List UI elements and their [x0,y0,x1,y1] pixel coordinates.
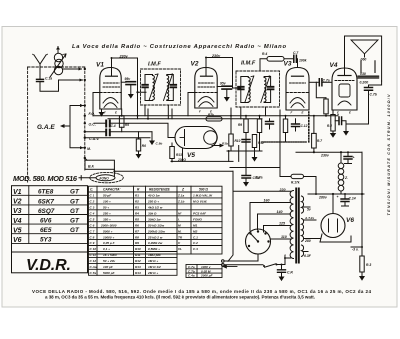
node M. [87,147,91,151]
filter choke Z [338,163,344,191]
svg-text:30k Ω: 30k Ω [148,212,157,216]
svg-text:GT: GT [70,208,80,215]
svg-text:Z.: Z. [344,176,348,180]
tube V1 [100,68,121,110]
svg-text:C 1: C 1 [90,194,95,198]
svg-text:GT: GT [70,218,80,225]
svg-text:C 6: C 6 [90,223,95,227]
wire V5 grid left [120,123,176,137]
svg-text:M': M' [178,212,182,216]
svg-text:V5: V5 [187,152,195,159]
svg-text:R6: R6 [135,223,139,227]
svg-text:V.D.R.: V.D.R. [26,257,71,274]
svg-text:+: + [353,156,355,160]
resistor R10 [229,108,233,151]
rectifier tube V6 [321,194,345,238]
svg-text:2000 pF: 2000 pF [200,274,213,278]
svg-text:C.: C. [90,188,93,192]
svg-text:V2: V2 [13,199,22,206]
resistor R4 [260,57,294,72]
svg-text:RESISTENZE: RESISTENZE [149,188,171,192]
title: La Voce della Radio - Costruzione Apparecchi Radio - Milano [72,44,286,50]
svg-text:R4: R4 [135,212,139,216]
svg-text:C 11: C 11 [90,253,97,257]
svg-text:E: E [302,111,304,115]
svg-text:I.M.F: I.M.F [148,62,161,68]
component value table [89,186,223,275]
svg-text:C 8: C 8 [90,235,95,239]
-3v node [351,246,362,248]
tube V3 [286,68,309,111]
capacitor C.14a [344,157,352,160]
capacitor C.7 [294,55,297,62]
svg-text:M2: M2 [193,229,198,233]
capacitor C.1a [37,79,44,81]
V6 heater loop [320,234,351,242]
IF transformer 2 (II.M.F) [236,71,280,107]
svg-text:R8: R8 [135,235,139,239]
svg-text:CAPACITA': CAPACITA' [103,188,121,192]
wire V4 plate up [344,36,346,75]
svg-text:VOCE DELLA RADIO - Modd. 580,: VOCE DELLA RADIO - Modd. 580, 516, 592. … [32,289,371,294]
svg-text:F: F [337,111,339,115]
wire V2 plate to IF2 [206,58,241,89]
svg-text:1M Ω +: 1M Ω + [148,259,158,263]
svg-text:F: F [104,111,106,115]
wire switch to mains [224,254,258,261]
svg-text:30kΩ 1w: 30kΩ 1w [148,217,161,221]
svg-text:030: 030 [360,72,366,76]
resistor R17 above transformer [280,167,316,194]
svg-text:4kΩ 1/2 w: 4kΩ 1/2 w [147,206,163,210]
table header texts [90,188,208,192]
oscillator coil dotted [308,112,310,142]
node C.A.V. [89,137,99,141]
cap at V2 grid2, 95v [220,82,227,86]
arrow output V5 [212,144,224,148]
svg-text:FONO: FONO [100,176,110,180]
V.D.R. logo [26,257,71,274]
svg-text:25 kΩ 2 w: 25 kΩ 2 w [147,235,163,239]
wire V5 right down [182,149,184,162]
svg-text:R9: R9 [238,123,242,127]
svg-text:C.1a: C.1a [45,77,52,81]
svg-text:6SQ7: 6SQ7 [38,208,55,215]
capacitor C.R with ground [278,270,286,273]
svg-text:M1: M1 [193,223,198,227]
svg-text:C.R: C.R [287,271,293,275]
svg-text:V4: V4 [13,218,22,225]
svg-text:0,2MΩ 2w: 0,2MΩ 2w [148,241,163,245]
svg-text:6TE8: 6TE8 [38,189,54,196]
tap wires to selector [228,171,291,264]
svg-text:R6: R6 [142,144,146,148]
svg-text:F: F [199,110,201,114]
svg-text:C.2: C.2 [193,241,198,245]
loudspeaker with output transformer [345,36,382,85]
svg-text:A.T.2x: A.T.2x [304,216,314,220]
coupling cap C.7a [309,81,318,83]
svg-text:V2: V2 [191,61,199,68]
svg-text:1M Ω 1/2: 1M Ω 1/2 [148,265,161,269]
svg-text:R2: R2 [135,200,139,204]
svg-text:C 3: C 3 [90,206,95,210]
svg-text:100 +: 100 + [103,200,111,204]
capacitor C5b [266,122,274,125]
capacitor C.7b [365,88,373,91]
svg-text:100k: 100k [299,59,308,63]
svg-text:M.: M. [178,229,182,233]
ground stub near C9b [149,132,155,145]
svg-text:C.3: C.3 [193,247,198,251]
svg-text:230Ω: 230Ω [177,158,186,162]
B.F. shielded box [85,160,114,169]
svg-text:16 + 500v: 16 + 500v [103,253,117,257]
svg-text:V5: V5 [13,227,22,234]
svg-text:1MΩ pot.: 1MΩ pot. [148,253,161,257]
svg-text:060: 060 [361,58,367,62]
tube pin labels [104,110,351,115]
svg-text:V4: V4 [330,62,338,69]
resistor R5 [119,109,124,132]
svg-text:C 5: C 5 [90,217,95,221]
capacitor C.12a [292,124,300,127]
tube V5 magic eye [175,127,217,149]
svg-text:250 +: 250 + [102,212,111,216]
svg-text:F: F [291,111,293,115]
capacitor C.4 [106,121,110,127]
main bus wires [85,116,338,172]
ground under V1 [99,109,105,117]
svg-text:350 +: 350 + [103,217,111,221]
svg-text:R14: R14 [135,271,141,275]
svg-text:-3 v.: -3 v. [352,248,359,252]
svg-text:C.9b: C.9b [156,142,163,146]
svg-text:V6: V6 [346,217,354,224]
svg-text:1 M.Ω VAL.W: 1 M.Ω VAL.W [193,194,213,198]
svg-text:B.F.: B.F. [88,164,95,168]
grid leak resistor V4 [316,82,328,116]
svg-text:50 + 20v: 50 + 20v [103,259,115,263]
filament dotted line [262,141,307,143]
svg-text:TENSIONI MISURATE CON STRUM. 1: TENSIONI MISURATE CON STRUM. 1000Ω/V [387,94,391,215]
svg-text:5Y3: 5Y3 [40,237,52,244]
transformer tap labels [279,188,286,192]
svg-text:40 Ω 1w: 40 Ω 1w [147,194,160,198]
svg-text:6V6: 6V6 [40,218,52,225]
resistor R8 [257,116,261,151]
svg-text:R7: R7 [135,229,139,233]
svg-text:E: E [210,110,212,114]
svg-text:V3: V3 [13,208,22,215]
antenna [33,54,48,79]
svg-text:M.: M. [87,147,91,151]
svg-text:R11: R11 [135,253,141,257]
capacitor C.12 [339,117,342,125]
svg-text:G.A.E: G.A.E [37,124,55,131]
svg-text:C 7: C 7 [90,229,95,233]
svg-text:125: 125 [279,222,286,226]
wire V1 cathode left down [93,93,100,116]
svg-text:M Ω VLW.: M Ω VLW. [193,200,207,204]
svg-text:R10: R10 [235,139,241,143]
svg-text:R5: R5 [135,217,139,221]
svg-text:V1: V1 [13,189,22,196]
svg-text:230v: 230v [320,153,330,157]
resistor R2b [283,116,287,141]
FONO jack oval [79,172,123,182]
tube V2 [195,68,217,109]
svg-text:250 Ω +: 250 Ω + [147,200,159,204]
wire V1 plate to IF1 [112,58,147,119]
svg-text:C.7b: C.7b [370,93,377,97]
svg-text:R.4: R.4 [262,52,267,56]
mains on/off switch blade [263,264,285,268]
svg-text:110: 110 [281,235,287,239]
svg-text:R13: R13 [176,153,182,157]
svg-text:R9: R9 [135,241,139,245]
svg-text:GT: GT [70,227,80,234]
resistor R7b [312,116,317,152]
voltage selector switch [246,229,271,254]
mains plug [222,260,264,266]
svg-text:R.2: R.2 [327,124,332,128]
svg-text:140: 140 [277,210,283,214]
tube list table [12,186,88,273]
capacitor C.5 [106,130,110,136]
svg-text:R12: R12 [135,259,141,263]
svg-text:200kΩ 1/2w: 200kΩ 1/2w [147,229,165,233]
HT line to rectifier [308,193,364,195]
svg-text:I.: I. [178,217,180,221]
wire IF2 right down [279,110,281,168]
svg-text:C 10: C 10 [90,247,97,251]
resistor R3 with ground [359,256,365,281]
svg-text:R13: R13 [135,265,141,269]
right rail [361,152,363,256]
svg-text:C 9: C 9 [90,241,95,245]
svg-text:280v: 280v [318,196,328,200]
resistor R2 cathode V4 with ground [330,110,336,138]
svg-text:R3: R3 [135,206,139,210]
switch contacts on dashed line [84,68,86,159]
svg-text:0,1 +: 0,1 + [103,247,110,251]
resistor R7 [206,117,222,121]
svg-text:2000÷3000: 2000÷3000 [100,223,117,227]
svg-text:Z.1b: Z.1b [177,200,184,204]
resistor R13 [170,143,175,161]
svg-text:II.M.F: II.M.F [241,61,256,67]
svg-text:R.17k: R.17k [291,181,300,185]
svg-text:C.1: C.1 [193,235,198,239]
wire IF1 leads down [148,109,172,119]
svg-text:R1b: R1b [222,142,228,146]
table body texts [90,194,214,275]
svg-text:E: E [115,111,117,115]
dashed chassis box [28,67,85,182]
wire switch row to bus [229,146,239,162]
svg-text:6.3F: 6.3F [304,254,312,258]
svg-text:+: + [337,195,339,199]
svg-text:R.7: R.7 [317,139,322,143]
svg-text:10000 +: 10000 + [103,235,114,239]
svg-text:V1: V1 [96,62,104,69]
svg-text:0,05 μ F: 0,05 μ F [103,241,115,245]
capacitor C.14 [341,199,349,202]
svg-text:C.Pa: C.Pa [255,176,263,180]
svg-text:50 pF: 50 pF [103,194,111,198]
svg-text:C 12: C 12 [90,259,97,263]
svg-text:Z.1a: Z.1a [177,194,184,198]
svg-text:0,5MΩ +: 0,5MΩ + [148,247,160,251]
svg-text:160: 160 [264,199,270,203]
svg-text:C.Ta: C.Ta [90,271,97,275]
svg-text:R10: R10 [135,247,141,251]
svg-text:MOD. 580. MOD 516: MOD. 580. MOD 516 [13,174,78,183]
IF2 leads [241,107,266,119]
svg-text:100 pF: 100 pF [103,265,113,269]
svg-text:GT: GT [70,189,80,196]
capacitor C.Ra with ground [242,176,251,179]
svg-text:E: E [349,111,351,115]
vertical measured-voltage note [387,94,391,215]
svg-text:6E5: 6E5 [40,227,52,234]
resistor R12 with ground [252,135,258,162]
resistor R9 [244,116,248,175]
svg-text:C.12: C.12 [301,124,308,128]
svg-text:FONO: FONO [193,217,203,221]
svg-text:C.Aa: C.Aa [90,265,97,269]
node O.C. [89,123,96,127]
svg-text:5000 +: 5000 + [103,229,113,233]
svg-text:50 +: 50 + [103,206,109,210]
capacitor C13 [242,140,250,143]
wire 230v feed [296,151,362,153]
wire V2 cathode left down [188,93,195,116]
svg-text:V3: V3 [284,61,292,68]
svg-text:C.4a: C.4a [188,274,195,278]
power transformer [290,189,303,263]
svg-text:R.3: R.3 [366,263,371,267]
svg-text:280: 280 [304,239,311,243]
bottom caption [32,289,371,300]
svg-text:R1: R1 [135,194,139,198]
svg-text:5000 pF: 5000 pF [103,271,115,275]
component table small sub-table [186,264,237,277]
secondary stubs and labels [304,207,321,252]
svg-text:0.200: 0.200 [360,80,369,84]
svg-text:C.4: C.4 [111,124,116,128]
cap at V1 grid2, 95v [125,77,132,81]
node F.O. [89,112,96,116]
tube V4 [332,68,357,110]
svg-text:50 kΩ 1/2w: 50 kΩ 1/2w [148,223,165,227]
svg-text:V6: V6 [13,237,22,244]
svg-text:500 Ω: 500 Ω [199,188,208,192]
svg-text:a 38 m, OC3 da 35 a 55 m. Medi: a 38 m, OC3 da 35 a 55 m. Media frequenz… [45,295,315,300]
svg-text:PCS 6AF: PCS 6AF [193,212,206,216]
svg-text:2M Ω +: 2M Ω + [147,271,158,275]
svg-text:C 2: C 2 [90,200,95,204]
svg-text:6SK7: 6SK7 [38,198,54,205]
svg-text:C 4: C 4 [90,212,95,216]
resistor R6 with ground [136,132,142,159]
IF transformer 1 (I.M.F) [141,69,181,105]
svg-text:GT: GT [70,198,80,205]
MOD heading [13,174,78,183]
tuning coil L1 with arrow [50,47,66,78]
node G.A.E with arrow [37,124,55,131]
svg-text:C.14: C.14 [349,197,356,201]
wire antenna to band switch [40,68,83,92]
svg-text:La Voce della Radio ~ Costruzi: La Voce della Radio ~ Costruzione Appare… [72,44,286,50]
svg-text:M: M [178,223,181,227]
wire to FONO jack [85,158,115,176]
svg-text:VL: VL [178,247,182,251]
IF1 leads [145,105,168,119]
